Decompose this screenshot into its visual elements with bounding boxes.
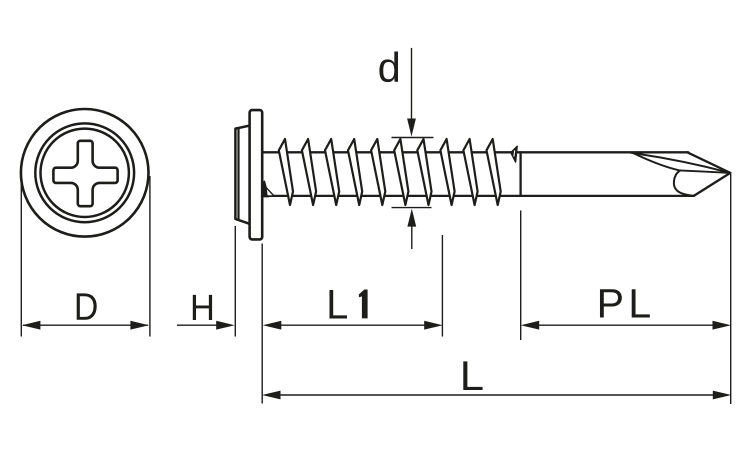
thread start runout flag xyxy=(262,181,275,196)
thread blade 4 xyxy=(348,139,362,205)
label D xyxy=(77,293,97,319)
PL extension line left xyxy=(520,211,522,341)
D arrow left xyxy=(22,321,41,330)
dimension graphics xyxy=(21,48,730,404)
extension line at drill tip xyxy=(730,174,732,404)
L dimension line xyxy=(280,394,714,396)
shank root bottom line xyxy=(262,195,694,197)
d dimension lower leader line xyxy=(411,226,413,249)
d arrow up xyxy=(407,209,416,227)
thread to pilot junction line xyxy=(519,152,521,196)
D arrow right xyxy=(130,321,149,330)
drill point top slant xyxy=(687,152,730,173)
d dimension top tick xyxy=(392,137,434,139)
D extension line right xyxy=(149,176,151,337)
thread blade 7 xyxy=(417,139,431,205)
d dimension bottom tick xyxy=(392,207,432,209)
head front view inner circle 1 xyxy=(35,123,134,222)
thread blade 2 xyxy=(302,139,316,205)
PL dimension line xyxy=(539,324,714,326)
L arrow right xyxy=(713,391,732,400)
label 1 of L1 xyxy=(359,290,368,319)
L1 extension line right xyxy=(441,235,443,337)
flange washer side view xyxy=(250,110,263,239)
thread blades xyxy=(279,139,501,205)
label H xyxy=(193,295,212,320)
d arrow down xyxy=(407,119,416,137)
label L of PL xyxy=(632,289,650,317)
drill point flute lower curve xyxy=(634,153,731,173)
H dimension tail left xyxy=(177,324,217,326)
thread blade 3 xyxy=(325,139,339,205)
drill point bottom slant xyxy=(694,173,731,196)
thread blade 1 xyxy=(279,139,293,205)
H/L1 arrow pointing left xyxy=(263,321,282,330)
L arrow left xyxy=(262,391,281,400)
head front view inner circle 2 xyxy=(40,129,128,217)
thread blade 9 xyxy=(463,139,477,205)
d dimension upper leader line xyxy=(411,48,413,120)
label L xyxy=(463,361,482,390)
PL arrow right xyxy=(713,321,732,330)
H/L1 dimension line xyxy=(281,324,426,326)
H arrow pointing right xyxy=(216,321,235,330)
H extension line left xyxy=(234,226,236,337)
PL arrow left xyxy=(521,321,540,330)
drill point flute upper line xyxy=(630,153,731,173)
thread end runout flag xyxy=(511,146,517,162)
thread blade 10 xyxy=(487,139,501,205)
thread blade 5 xyxy=(371,139,385,205)
shank root top line xyxy=(262,151,688,153)
label L of L1 xyxy=(330,290,347,318)
D dimension line xyxy=(23,324,148,326)
thread blade 6 xyxy=(394,139,408,205)
L1 arrow right xyxy=(424,321,443,330)
arrowheads xyxy=(22,119,731,400)
D extension line left xyxy=(20,176,22,337)
head front view outer circle (flange OD) xyxy=(21,109,149,237)
phillips recess cross xyxy=(53,141,117,206)
label d xyxy=(379,52,398,83)
head side view inner contour line xyxy=(237,128,239,219)
label P of PL xyxy=(600,289,622,317)
shared extension line under flange right edge xyxy=(261,244,263,404)
head side view cone profile xyxy=(235,126,249,224)
drill point cutting face arc xyxy=(674,170,694,196)
thread blade 8 xyxy=(440,139,454,205)
